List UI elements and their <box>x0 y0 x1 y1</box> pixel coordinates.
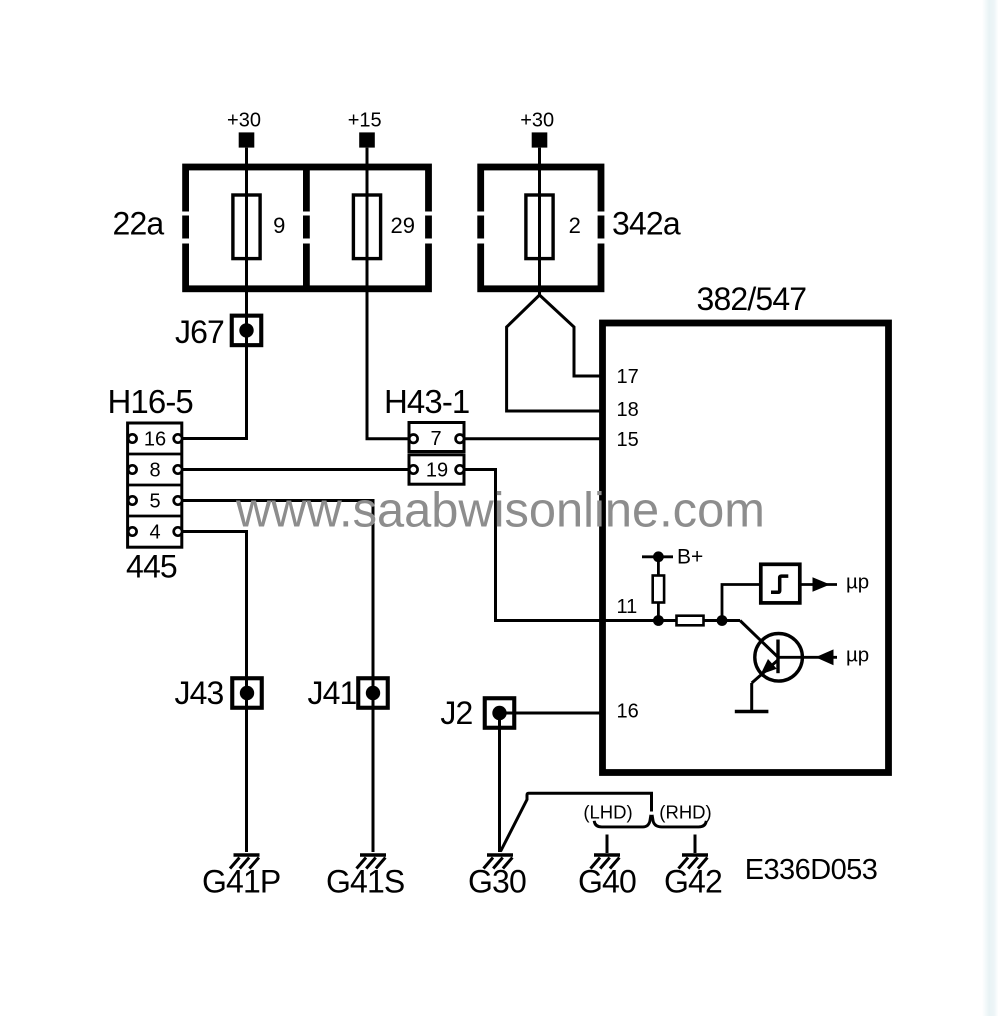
svg-text:22a: 22a <box>113 206 165 242</box>
svg-text:29: 29 <box>390 213 414 238</box>
svg-text:µp: µp <box>846 571 869 594</box>
svg-text:B+: B+ <box>677 546 703 569</box>
svg-text:J41: J41 <box>307 675 356 711</box>
svg-text:5: 5 <box>149 491 160 513</box>
svg-text:G41S: G41S <box>326 864 404 900</box>
svg-text:G42: G42 <box>664 864 722 900</box>
svg-text:G41P: G41P <box>202 864 280 900</box>
svg-text:www.saabwisonline.com: www.saabwisonline.com <box>235 484 765 538</box>
svg-text:J67: J67 <box>175 314 224 350</box>
svg-text:382/547: 382/547 <box>697 281 807 317</box>
svg-text:2: 2 <box>569 213 581 238</box>
svg-text:19: 19 <box>426 460 448 482</box>
svg-text:+30: +30 <box>520 110 554 132</box>
svg-text:H16-5: H16-5 <box>108 383 193 420</box>
svg-text:11: 11 <box>617 596 638 618</box>
svg-text:H43-1: H43-1 <box>384 383 469 420</box>
svg-text:4: 4 <box>149 522 160 544</box>
svg-text:+30: +30 <box>227 110 261 132</box>
svg-text:445: 445 <box>126 549 177 585</box>
svg-text:15: 15 <box>617 429 639 451</box>
svg-text:18: 18 <box>617 399 639 421</box>
svg-text:9: 9 <box>273 213 285 238</box>
svg-text:G30: G30 <box>468 864 526 900</box>
svg-text:G40: G40 <box>578 864 636 900</box>
svg-text:16: 16 <box>144 429 166 451</box>
svg-text:J43: J43 <box>174 675 223 711</box>
svg-text:(LHD): (LHD) <box>583 802 632 823</box>
svg-text:342a: 342a <box>612 206 681 242</box>
svg-text:7: 7 <box>430 428 441 450</box>
svg-text:17: 17 <box>617 366 639 388</box>
svg-text:8: 8 <box>149 460 160 482</box>
svg-text:+15: +15 <box>348 110 382 132</box>
svg-text:E336D053: E336D053 <box>745 854 878 886</box>
svg-text:J2: J2 <box>440 695 472 731</box>
svg-text:(RHD): (RHD) <box>659 802 711 823</box>
svg-text:µp: µp <box>846 644 869 667</box>
svg-text:16: 16 <box>617 701 639 723</box>
